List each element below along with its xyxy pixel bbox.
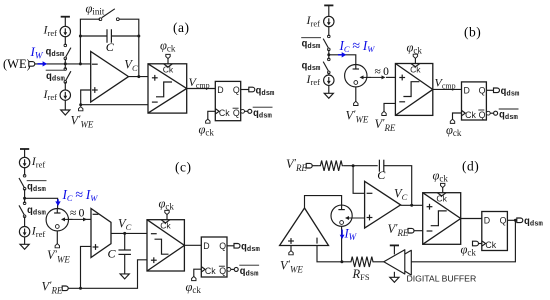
svg-text:C: C <box>108 247 117 261</box>
resistor input (d) <box>319 161 344 171</box>
port VWE (a) <box>79 107 83 111</box>
wire node to sensor (b) <box>329 55 356 65</box>
svg-text:Q: Q <box>479 110 486 120</box>
switch qdsm-bar (a bottom) <box>64 68 71 84</box>
wire switch2 to Iref2 (b) <box>328 73 330 76</box>
svg-text:≈ 0: ≈ 0 <box>375 66 390 78</box>
junction feedback-main (a) <box>79 62 82 65</box>
switch qdsm (b bottom) <box>323 58 330 74</box>
supply rail buffer (d) <box>390 245 399 254</box>
wire switch2 to Iref2 (a) <box>64 64 66 90</box>
current sensor (b) <box>345 65 367 87</box>
wire node down (b) <box>328 55 330 59</box>
port VRE top (d) <box>306 163 312 168</box>
port qdsm-bar out (b) <box>494 111 498 115</box>
svg-text:C: C <box>377 168 386 182</box>
svg-text:Q: Q <box>219 266 226 276</box>
svg-text:Ck: Ck <box>485 240 496 250</box>
junction node (c) <box>23 197 26 200</box>
svg-text:Ck: Ck <box>160 221 171 231</box>
junction VRE branch (c) <box>79 287 82 290</box>
wire VRE to comparator (b) <box>384 103 395 111</box>
switch qdsm-bar (b top) <box>323 35 330 51</box>
svg-text:(d): (d) <box>462 159 479 174</box>
port VRE (b) <box>382 111 386 115</box>
port qdsm out (c) <box>234 244 240 249</box>
wire arrow to ota (c) <box>86 218 92 220</box>
svg-text:Ck: Ck <box>163 65 174 75</box>
svg-text:Ck: Ck <box>436 194 447 204</box>
port VRE mid (d) <box>408 228 414 233</box>
wire Q out (d) <box>507 219 517 221</box>
switch phi_init (a) <box>99 9 119 21</box>
buffer op-amp (d) <box>280 208 329 246</box>
wire Q out (b) <box>486 89 494 91</box>
capacitor C (a) <box>107 29 111 43</box>
D flip-flop (d) <box>482 212 508 251</box>
wire Iref to switch (b) <box>328 26 330 36</box>
D flip-flop (c) <box>201 237 227 277</box>
junction VC (d) <box>410 204 413 207</box>
svg-text:(WE): (WE) <box>3 57 31 71</box>
wire clock stem comparator (c) <box>166 215 168 220</box>
port VWE (b) <box>354 101 358 105</box>
wire sensor to VWE port (b) <box>355 87 357 102</box>
port phi_ck ff (b) <box>450 119 454 123</box>
wire Vcmp (b) <box>433 88 462 90</box>
wire buffer to ff (d) <box>411 220 515 261</box>
wire node to minus (d) <box>353 166 365 194</box>
OTA plus glyph (c) <box>93 246 99 248</box>
blue arrow IW (d) <box>340 230 345 240</box>
bubble Qbar (b) <box>486 111 490 115</box>
capacitor C (d) <box>379 160 383 172</box>
wire sensor to VWE port (c) <box>56 231 58 244</box>
junction feedback node (d) <box>352 164 355 167</box>
svg-text:≈ 0: ≈ 0 <box>70 208 85 220</box>
bubble Qbar (a) <box>241 109 245 113</box>
blue arrow IC (b) <box>338 52 346 57</box>
port VRE (c) <box>62 286 68 291</box>
port qdsm-bar out (c) <box>234 267 238 271</box>
wire Q out (c) <box>227 245 235 247</box>
svg-text:(c): (c) <box>175 160 191 175</box>
current source Iref (c top) <box>19 157 29 167</box>
port phi_ck ff (a) <box>206 119 210 123</box>
wire cap to output (d) <box>383 166 411 206</box>
wire and arrow to opamp (c) <box>68 217 88 221</box>
wire op-amp plus input (a) <box>81 90 91 105</box>
wire clock stem comparator (d) <box>442 188 444 193</box>
OTA minus glyph (c) <box>93 213 99 215</box>
wire RFS to buffer (d) <box>375 261 384 263</box>
wire buffer feedback (d) <box>317 246 342 262</box>
svg-text:Ck: Ck <box>205 266 216 276</box>
wire VC out (d) <box>401 204 423 206</box>
capacitor C (c) <box>118 250 131 254</box>
junction bottom node (d) <box>340 260 343 263</box>
svg-text:Q: Q <box>500 215 507 225</box>
svg-text:Q: Q <box>479 86 486 96</box>
svg-text:D: D <box>484 215 490 225</box>
wire VWE to comparator (a) <box>81 104 148 106</box>
ground (b) <box>324 85 333 98</box>
wire switch to junction (b) <box>328 50 330 55</box>
buffer plus glyph (d) <box>288 240 294 242</box>
sensor arrow (d) <box>345 216 365 220</box>
port qdsm out (a) <box>249 87 255 92</box>
wire clock L (b) <box>453 113 462 119</box>
digital buffer (d) <box>384 250 412 275</box>
sensor arrow into circle (b) <box>360 75 372 79</box>
ground (a) <box>61 100 70 115</box>
wire switch to junction (c) <box>24 189 26 198</box>
wire buffer out to sensor (d) <box>305 196 342 208</box>
port phi_ck comparator (a) <box>166 54 170 58</box>
wire node to RFS (d) <box>342 261 350 263</box>
op-amp U2 (d) <box>365 181 401 228</box>
wire switch to node (a) <box>64 59 66 64</box>
svg-text:(b): (b) <box>464 25 481 40</box>
port phi_ck comparator (b) <box>413 54 417 58</box>
wire phick port to Ck (d) <box>478 243 481 245</box>
wire VRE mid to comparator (d) <box>414 230 423 232</box>
comparator (a) <box>148 64 187 113</box>
wire Vcmp (a) <box>187 88 216 90</box>
svg-text:(a): (a) <box>173 20 189 35</box>
comparator (c) <box>147 220 184 271</box>
svg-text:D: D <box>203 241 209 251</box>
switch qdsm (c bottom) <box>19 202 26 218</box>
op-amp plus glyph (a) <box>92 89 98 91</box>
supply rail (c) <box>20 149 29 158</box>
switch qdsm-bar (c top) <box>19 175 26 191</box>
current source Iref (c bottom) <box>19 227 29 237</box>
wire Qbar out (b) <box>490 112 493 114</box>
ground (c) <box>20 237 29 250</box>
op-amp minus glyph (d) <box>367 192 373 194</box>
D flip-flop (b) <box>462 82 487 120</box>
port qdsm-bar out (a) <box>248 109 252 113</box>
wire phi_init right (a) <box>119 19 139 36</box>
wire node to cap (d) <box>353 165 378 167</box>
switch qdsm (a top) <box>64 44 71 60</box>
current sensor (d) <box>331 205 352 226</box>
port VWE (d) <box>289 251 293 255</box>
wire VRE to OTA plus (c) <box>81 246 92 288</box>
wire clock stem comparator (a) <box>167 59 169 64</box>
wire buffer plus to port (d) <box>290 246 292 251</box>
OTA amplifier (c) <box>91 209 111 258</box>
wire clock stem comparator (b) <box>414 58 416 63</box>
current source Iref (a top) <box>60 26 70 36</box>
wire Iref to switch (c) <box>24 167 26 175</box>
wire feedback left vertical (a) <box>80 19 100 64</box>
wire comparator out (c) <box>184 244 201 246</box>
sensor arrow into circle (c) <box>61 217 73 221</box>
junction cap left (a) <box>79 35 82 38</box>
port qdsm out (d) <box>517 218 523 223</box>
wire cap row (a) <box>80 35 138 37</box>
port (WE) <box>29 62 35 67</box>
svg-text:Ck: Ck <box>410 64 421 74</box>
wire clock L (c) <box>194 269 202 276</box>
current source Iref (b top) <box>324 16 334 26</box>
wire node down (c) <box>24 198 26 203</box>
op-amp minus glyph (a) <box>92 63 98 65</box>
wire node to sensor (c) <box>25 198 58 208</box>
wire Iref to switch (a) <box>64 36 66 45</box>
svg-text:Q: Q <box>233 108 240 118</box>
current source Iref (a bottom) <box>60 90 70 100</box>
supply rail (a) top <box>61 17 70 27</box>
wire Qbar out (a) <box>245 110 248 112</box>
svg-text:Q: Q <box>219 241 226 251</box>
wire cap stem (c) <box>124 233 126 274</box>
op-amp plus glyph (d) <box>367 217 373 219</box>
wire arrow to box (b) <box>386 76 395 78</box>
svg-text:Q: Q <box>233 85 240 95</box>
wire WE input <box>35 63 91 65</box>
junction VC (a) <box>137 75 140 78</box>
port phi_ck comparator (d) <box>441 183 445 187</box>
wire sensor to bottom node (d) <box>341 226 343 261</box>
comparator (d) <box>423 193 461 245</box>
svg-text:C: C <box>106 40 115 54</box>
port phi_ck comparator (c) <box>165 210 169 214</box>
wire and arrow to comparator (b) <box>366 75 386 79</box>
wire Qbar out (c) <box>231 268 234 270</box>
svg-text:D: D <box>217 85 223 95</box>
wire switch2 to Iref2 (c) <box>24 216 26 227</box>
blue arrow IC (c) <box>55 199 60 206</box>
svg-text:Ck: Ck <box>465 110 476 120</box>
wire clock L (a) <box>208 111 216 119</box>
D flip-flop (a) <box>215 81 240 120</box>
port phi_ck ff (c) <box>192 276 196 280</box>
port phi_ck ff (d) <box>473 241 479 246</box>
wire VRE rail (c) <box>68 260 147 289</box>
junction VC (c) <box>123 232 126 235</box>
wire Q out (a) <box>241 89 250 91</box>
wire resistor to node (d) <box>344 165 353 167</box>
bubble Qbar (c) <box>227 268 231 272</box>
svg-text:D: D <box>464 86 470 96</box>
junction cap right (a) <box>137 35 140 38</box>
buffer minus glyph (d) <box>316 238 318 244</box>
current source Iref (b bottom) <box>324 75 334 85</box>
port qdsm out (b) <box>494 88 500 93</box>
ground capacitor (c) <box>120 274 129 279</box>
junction main node (a) <box>64 62 67 65</box>
op-amp U1 (a) <box>91 52 129 103</box>
comparator (b) <box>395 64 432 116</box>
wire feedback right vertical (a) <box>138 36 140 77</box>
wire VRE to resistor (d) <box>312 165 319 167</box>
junction q out (d) <box>514 219 517 222</box>
resistor RFS (d) <box>350 257 375 267</box>
port VWE (c) <box>55 244 59 248</box>
ground buffer (d) <box>390 272 399 283</box>
current sensor (c) <box>46 209 68 231</box>
junction VWE node (a) <box>79 103 82 106</box>
svg-text:DIGITAL BUFFER: DIGITAL BUFFER <box>407 274 477 284</box>
supply rail (b) <box>324 5 333 16</box>
wire comparator out (d) <box>461 218 482 220</box>
blue arrow IW <box>38 61 48 66</box>
wire VC output (a) <box>129 76 149 78</box>
junction node (b) <box>327 53 330 56</box>
wire VC out (c) <box>111 232 147 234</box>
svg-text:Ck: Ck <box>219 108 230 118</box>
